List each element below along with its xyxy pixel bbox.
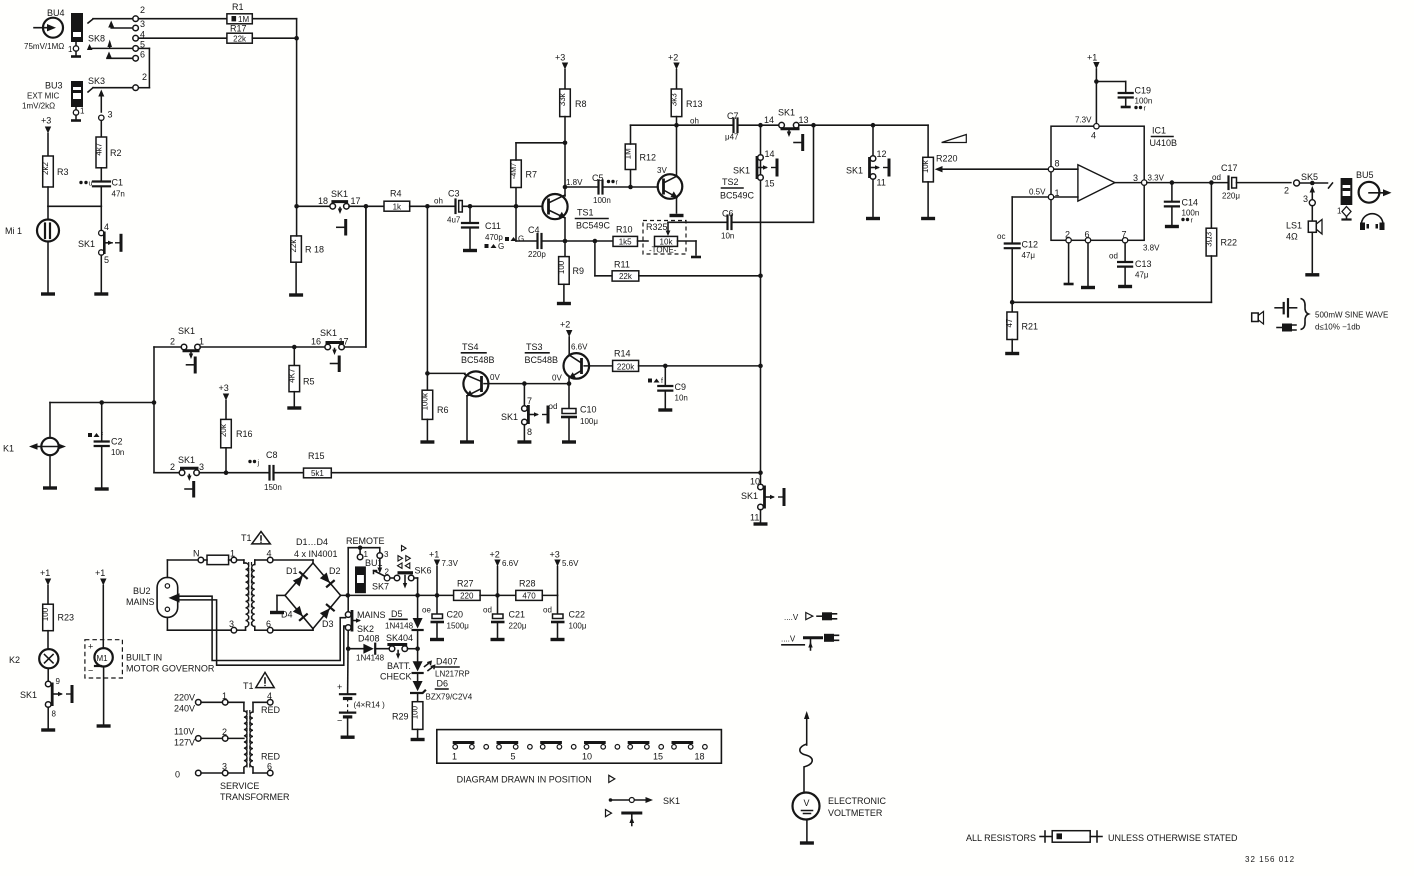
switch SK1 contacts 10-11 — [741, 477, 784, 525]
svg-text:R325: R325 — [646, 222, 668, 232]
resistor R28 — [516, 579, 558, 601]
svg-text:4: 4 — [267, 691, 272, 701]
svg-text:1: 1 — [452, 752, 457, 762]
svg-text:oh: oh — [434, 197, 443, 206]
svg-text:3.3V: 3.3V — [1148, 174, 1165, 183]
svg-text:1: 1 — [1055, 188, 1060, 198]
wire SK1-13 to R220 — [758, 123, 928, 128]
svg-text:SK1: SK1 — [20, 690, 37, 700]
battery 4xR14 — [337, 682, 385, 737]
svg-text:RED: RED — [261, 752, 281, 762]
svg-text:BC549C: BC549C — [576, 221, 611, 231]
svg-text:15: 15 — [765, 179, 775, 189]
svg-text:7: 7 — [527, 396, 532, 406]
svg-text:47n: 47n — [112, 190, 125, 199]
svg-text:8: 8 — [1055, 159, 1060, 169]
svg-text:-TONE-: -TONE- — [649, 246, 677, 255]
capacitor C13 — [1109, 243, 1160, 287]
capacitor C7 — [677, 111, 779, 142]
svg-text:LS1: LS1 — [1286, 221, 1302, 231]
svg-text:u: u — [89, 181, 93, 188]
node SK1-17 branch — [349, 204, 384, 347]
svg-text:20k: 20k — [219, 423, 228, 437]
svg-text:−: − — [337, 716, 342, 726]
connector K2 — [9, 649, 58, 668]
svg-text:T1: T1 — [243, 681, 254, 691]
svg-text:10n: 10n — [721, 232, 734, 241]
svg-text:od: od — [1212, 173, 1221, 182]
svg-text:▫4M7: ▫4M7 — [511, 163, 518, 179]
svg-text:+3: +3 — [550, 550, 560, 560]
capacitor C9 — [648, 366, 688, 410]
svg-text:4: 4 — [267, 549, 272, 559]
node bus to SK1-18 — [294, 204, 299, 209]
svg-text:3: 3 — [140, 19, 145, 29]
svg-text:10n: 10n — [111, 448, 124, 457]
svg-text:47μ: 47μ — [1135, 271, 1149, 280]
svg-text:2: 2 — [142, 72, 147, 82]
svg-text:R5: R5 — [303, 377, 315, 387]
svg-text:D407: D407 — [436, 657, 458, 667]
wire TS3 emitter to C10 — [568, 378, 570, 409]
svg-text:100μ: 100μ — [580, 417, 598, 426]
svg-text:C12: C12 — [1022, 240, 1039, 250]
svg-text:C2: C2 — [111, 437, 123, 447]
capacitor C14 — [1165, 183, 1199, 227]
connector BU2 mains plug — [126, 577, 180, 617]
diode D408 — [348, 634, 389, 663]
svg-text:SK1: SK1 — [846, 166, 863, 176]
warning triangle T1 — [241, 532, 270, 544]
supply +3 5.6V — [550, 550, 580, 596]
wire R1 to bus — [252, 19, 296, 39]
resistor R23 — [41, 604, 74, 649]
resistor R13 — [670, 89, 703, 117]
svg-text:SK7: SK7 — [372, 582, 389, 592]
svg-text:75mV/1MΩ: 75mV/1MΩ — [24, 42, 64, 51]
svg-text:3: 3 — [1303, 194, 1308, 204]
volume ramp symbol — [942, 135, 967, 143]
svg-text:SK6: SK6 — [415, 566, 432, 576]
svg-text:100n: 100n — [593, 196, 611, 205]
svg-text:470: 470 — [522, 592, 536, 601]
svg-text:+1: +1 — [95, 568, 105, 578]
svg-text:SK1: SK1 — [178, 455, 195, 465]
svg-text:μ47: μ47 — [725, 133, 739, 142]
svg-text:C20: C20 — [447, 610, 464, 620]
svg-text:+3: +3 — [219, 383, 229, 393]
svg-text:R1: R1 — [232, 2, 244, 12]
svg-text:D6: D6 — [437, 679, 449, 689]
capacitor C10 — [561, 405, 598, 443]
svg-text:M1: M1 — [97, 654, 109, 663]
svg-text:C10: C10 — [580, 405, 597, 415]
switch SK7 — [372, 558, 390, 591]
connector BU4 — [24, 8, 65, 51]
ground bridge left — [270, 595, 285, 612]
diode D5 — [385, 595, 423, 648]
resistor R5 — [287, 347, 314, 408]
wire C3 to TS1 base — [462, 204, 542, 209]
wire TS1 emitter to C4 node — [563, 218, 568, 257]
svg-text:+2: +2 — [668, 53, 678, 63]
svg-text:15: 15 — [653, 752, 663, 762]
svg-text:7.3V: 7.3V — [1075, 116, 1092, 125]
mains cord wires — [180, 596, 346, 665]
diode D3 — [320, 605, 334, 629]
supply +3 R16 — [219, 383, 230, 419]
svg-text:220V: 220V — [174, 693, 195, 703]
svg-text:SK5: SK5 — [1301, 172, 1318, 182]
diode D4 — [281, 606, 307, 620]
microphone Mi1 — [5, 206, 59, 294]
switch SK1 contacts 2-1 — [170, 326, 204, 374]
svg-text:47μ: 47μ — [1022, 251, 1036, 260]
wire bridge to bus — [341, 593, 420, 598]
resistor R9 — [557, 257, 584, 304]
op-amp IC1 U410B — [1048, 116, 1177, 244]
resistor R6 — [420, 206, 448, 442]
svg-text:BC548B: BC548B — [461, 355, 495, 365]
capacitor C17 — [1221, 163, 1291, 201]
svg-text:R28: R28 — [519, 579, 536, 589]
svg-text:10k: 10k — [921, 159, 930, 173]
svg-text:od: od — [543, 606, 552, 615]
wire SK8 contact5 to SK3 — [138, 48, 149, 87]
svg-text:32 156 012: 32 156 012 — [1245, 855, 1295, 864]
svg-text:U410B: U410B — [1150, 138, 1178, 148]
text diagram drawn in position — [457, 775, 615, 785]
capacitor C8 — [264, 450, 304, 492]
svg-text:MAINS: MAINS — [357, 610, 386, 620]
svg-text:3: 3 — [108, 110, 113, 120]
svg-text:BU4: BU4 — [47, 8, 65, 18]
svg-text:1k: 1k — [393, 202, 402, 211]
svg-text:d≤10% −1db: d≤10% −1db — [1315, 323, 1361, 332]
svg-text:+1: +1 — [429, 550, 439, 560]
svg-text:10: 10 — [582, 752, 592, 762]
svg-text:127V: 127V — [174, 738, 195, 748]
legend 500mW sine wave — [1252, 299, 1389, 332]
switch SK3 — [88, 72, 147, 121]
wire bus down — [296, 38, 298, 206]
capacitor C4 — [505, 206, 595, 259]
svg-text:C9: C9 — [675, 382, 687, 392]
svg-text:VOLTMETER: VOLTMETER — [828, 808, 883, 818]
svg-text:3Ω3: 3Ω3 — [1204, 231, 1213, 246]
electronic voltmeter — [793, 711, 887, 843]
wire pin3 output 3.3V — [1147, 173, 1228, 185]
svg-text:f: f — [661, 378, 663, 385]
svg-text:D2: D2 — [329, 566, 341, 576]
svg-text:....V: ....V — [781, 635, 796, 644]
LED D407 — [413, 649, 470, 679]
wire R220 wiper to IC pin 8 — [935, 166, 1049, 172]
svg-text:BU3: BU3 — [45, 81, 63, 91]
svg-text:CHECK: CHECK — [380, 672, 412, 682]
resistor R3 — [41, 156, 69, 187]
svg-text:2: 2 — [140, 5, 145, 15]
ground IC pin6 — [1081, 243, 1095, 288]
svg-text:od: od — [549, 402, 558, 411]
svg-text:LN217RP: LN217RP — [435, 670, 470, 679]
jack symbol BU4 — [68, 13, 83, 57]
svg-text:IC1: IC1 — [1152, 126, 1166, 136]
resistor R2 — [94, 137, 121, 168]
svg-text:R13: R13 — [686, 99, 703, 109]
svg-text:REMOTE: REMOTE — [346, 536, 385, 546]
fuse N — [167, 549, 236, 578]
svg-text:5: 5 — [511, 752, 516, 762]
svg-text:470p: 470p — [485, 233, 503, 242]
wire R2 to C1 — [100, 168, 102, 182]
capacitor C3 — [447, 189, 462, 225]
supply +2 6.6V — [490, 550, 520, 596]
svg-text:C1: C1 — [112, 178, 124, 188]
capacitor C22 — [543, 595, 587, 639]
svg-text:220μ: 220μ — [1222, 192, 1240, 201]
switch SK1 contacts 4-5 — [78, 206, 121, 294]
svg-text:3.8V: 3.8V — [1143, 244, 1160, 253]
svg-text:1: 1 — [230, 549, 235, 559]
capacitor C21 — [483, 595, 527, 639]
switch SK1 contacts 14-13 — [764, 108, 809, 152]
wire SK1-2 left leg — [152, 347, 182, 473]
svg-text:TS1: TS1 — [577, 208, 594, 218]
svg-text:D408: D408 — [358, 634, 380, 644]
resistor R18 — [289, 206, 324, 295]
switch SK8 — [87, 5, 145, 61]
svg-text:R22: R22 — [1221, 238, 1238, 248]
svg-text:4k7: 4k7 — [94, 142, 103, 155]
svg-text:od: od — [483, 606, 492, 615]
svg-text:C11: C11 — [485, 221, 501, 231]
text built in motor governor — [126, 653, 215, 674]
supply +1 K2 — [40, 568, 51, 604]
text BATT CHECK — [380, 661, 412, 682]
connector BU1 remote — [355, 548, 389, 594]
switch SK1 contacts 16-17 — [311, 328, 349, 372]
resistor R11 — [595, 241, 761, 281]
wire R13 to TS2 collector — [674, 117, 699, 177]
svg-text:1N4148: 1N4148 — [385, 622, 414, 631]
legend switch SK1 — [606, 796, 681, 826]
wire SK8 contact2 to R1 — [138, 18, 227, 20]
svg-text:R21: R21 — [1022, 322, 1039, 332]
svg-text:j: j — [257, 460, 260, 467]
resistor R8 — [558, 89, 587, 117]
svg-text:R17: R17 — [230, 24, 247, 34]
resistor R7 — [511, 143, 565, 207]
supply rail raw — [418, 593, 454, 598]
svg-text:(4×R14 ): (4×R14 ) — [354, 701, 386, 710]
resistor R21 — [1005, 302, 1038, 353]
resistor R12 — [624, 125, 678, 187]
svg-text:C3: C3 — [448, 189, 460, 199]
svg-text:C8: C8 — [266, 450, 278, 460]
svg-text:BATT.: BATT. — [387, 661, 411, 671]
svg-text:2: 2 — [170, 337, 175, 347]
keyboard legend box — [437, 730, 722, 764]
svg-text:11: 11 — [877, 178, 886, 188]
wire bus x760 mid — [758, 276, 763, 484]
svg-text:100: 100 — [557, 260, 566, 274]
loudspeaker LS1 — [1286, 206, 1322, 275]
resistor R4 — [384, 189, 410, 212]
svg-text:UNLESS OTHERWISE STATED: UNLESS OTHERWISE STATED — [1108, 833, 1238, 843]
capacitor C19 — [1096, 82, 1152, 113]
switch SK1 contacts 12-11 — [846, 125, 889, 218]
potentiometer R325 TONE — [643, 221, 701, 258]
capacitor C6 — [668, 125, 814, 240]
svg-text:1: 1 — [80, 107, 85, 116]
svg-text:9: 9 — [56, 677, 61, 686]
svg-text:G: G — [518, 235, 524, 244]
svg-text:+2: +2 — [490, 550, 500, 560]
capacitor C20 — [422, 595, 469, 639]
svg-text:R3: R3 — [57, 167, 69, 177]
resistor R1 — [227, 2, 252, 24]
svg-text:100: 100 — [41, 607, 50, 621]
legend meter plug row2 — [781, 634, 839, 650]
supply +3 R8 — [555, 53, 568, 90]
svg-text:V: V — [804, 798, 810, 808]
service transformer primary coil — [244, 710, 250, 768]
svg-text:8: 8 — [527, 427, 532, 437]
svg-text:Mi 1: Mi 1 — [5, 226, 22, 236]
supply +1 7.3V — [429, 550, 459, 596]
svg-text:4Ω: 4Ω — [1286, 232, 1298, 242]
svg-text:47: 47 — [1005, 318, 1014, 327]
svg-text:oe: oe — [422, 606, 431, 615]
svg-text:4K7: 4K7 — [287, 368, 296, 383]
svg-text:SK8: SK8 — [88, 34, 105, 44]
resistor R14 — [613, 349, 763, 372]
svg-text:C14: C14 — [1182, 198, 1199, 208]
rectifier bridge D1-D4 — [273, 537, 341, 630]
svg-text:6: 6 — [1085, 230, 1090, 240]
svg-text:1k5: 1k5 — [619, 238, 632, 247]
svg-text:D5: D5 — [391, 609, 403, 619]
svg-text:R14: R14 — [614, 349, 631, 359]
svg-text:R220: R220 — [936, 154, 958, 164]
svg-text:1.8V: 1.8V — [566, 178, 583, 187]
capacitor C11 — [462, 206, 504, 251]
svg-text:R11: R11 — [614, 260, 630, 270]
svg-text:D1…D4: D1…D4 — [296, 537, 328, 547]
svg-text:C22: C22 — [569, 610, 586, 620]
svg-text:f: f — [101, 433, 103, 440]
svg-text:3V: 3V — [657, 166, 667, 175]
svg-text:0V: 0V — [552, 374, 562, 383]
svg-text:6.6V: 6.6V — [571, 343, 588, 352]
switch SK1 contacts 14-15 — [733, 149, 777, 189]
svg-text:BC548B: BC548B — [525, 355, 559, 365]
svg-text:R15: R15 — [308, 451, 325, 461]
supply +2 R13 — [668, 53, 680, 90]
svg-text:100: 100 — [411, 705, 420, 719]
transistor TS4 BC548B — [427, 342, 500, 442]
potentiometer R220 — [921, 125, 957, 218]
svg-text:BUILT IN: BUILT IN — [126, 653, 162, 663]
svg-text:oh: oh — [690, 117, 699, 126]
svg-text:SK1: SK1 — [778, 108, 795, 118]
svg-text:2: 2 — [170, 462, 175, 472]
wire SK8 contact4 to R17 — [138, 37, 227, 39]
svg-text:SK1: SK1 — [733, 166, 750, 176]
svg-text:C4: C4 — [528, 225, 540, 235]
svg-text:R 18: R 18 — [305, 245, 324, 255]
transformer T1 secondary — [252, 549, 273, 634]
svg-text:1: 1 — [1337, 207, 1342, 216]
wire SK1-3 to C8 — [199, 460, 268, 475]
svg-text:N: N — [193, 549, 200, 559]
resistor R27 — [454, 579, 516, 601]
svg-text:R16: R16 — [236, 429, 253, 439]
switch SK1 contacts 9-8 — [20, 668, 72, 730]
svg-text:C17: C17 — [1221, 163, 1238, 173]
svg-text:od: od — [1109, 252, 1118, 261]
resistor R10 — [593, 225, 648, 247]
node bus R1-R17 — [294, 36, 299, 41]
switch SK404 — [386, 633, 420, 659]
svg-text:7.3V: 7.3V — [442, 559, 459, 568]
svg-text:5k1: 5k1 — [311, 469, 324, 478]
svg-text:R6: R6 — [437, 405, 449, 415]
svg-text:TS2: TS2 — [722, 177, 739, 187]
svg-text:7: 7 — [1122, 230, 1127, 240]
svg-text:220: 220 — [460, 592, 474, 601]
svg-text:MOTOR GOVERNOR: MOTOR GOVERNOR — [126, 664, 215, 674]
supply +3 mic — [41, 116, 51, 157]
svg-text:110V: 110V — [174, 727, 194, 737]
svg-text:+: + — [88, 642, 93, 652]
svg-text:K2: K2 — [9, 655, 20, 665]
svg-text:220k: 220k — [617, 363, 635, 372]
svg-text:1mV/2kΩ: 1mV/2kΩ — [22, 102, 55, 111]
svg-text:100n: 100n — [1135, 97, 1153, 106]
svg-text:R8: R8 — [575, 99, 587, 109]
svg-text:R4: R4 — [390, 189, 402, 199]
resistor R17 — [227, 24, 252, 44]
svg-text:R10: R10 — [616, 225, 633, 235]
svg-text:D3: D3 — [322, 619, 334, 629]
svg-text:22k: 22k — [289, 239, 298, 253]
svg-text:14: 14 — [764, 115, 774, 125]
svg-text:5: 5 — [104, 255, 109, 265]
wire feedback rail — [1010, 300, 1212, 305]
svg-text:C21: C21 — [509, 610, 526, 620]
svg-text:SK1: SK1 — [78, 239, 95, 249]
svg-text:C19: C19 — [1135, 86, 1152, 96]
transformer T1 primary — [167, 560, 251, 633]
svg-text:D1: D1 — [286, 566, 298, 576]
switch SK1 contacts 2-3 — [170, 455, 204, 498]
svg-text:oc: oc — [997, 232, 1005, 241]
svg-text:500mW SINE WAVE: 500mW SINE WAVE — [1315, 311, 1388, 320]
svg-text:2: 2 — [1065, 230, 1070, 240]
svg-text:SK1: SK1 — [178, 326, 195, 336]
svg-text:SK1: SK1 — [741, 491, 758, 501]
supply +2 TS3 — [560, 320, 572, 356]
warning triangle T1 service — [243, 672, 274, 691]
resistor R15 — [304, 451, 761, 478]
svg-text:4: 4 — [1091, 131, 1096, 141]
svg-text:0: 0 — [175, 770, 180, 780]
svg-text:4: 4 — [104, 222, 109, 232]
svg-text:6: 6 — [140, 50, 145, 60]
resistor R29 — [392, 702, 425, 740]
